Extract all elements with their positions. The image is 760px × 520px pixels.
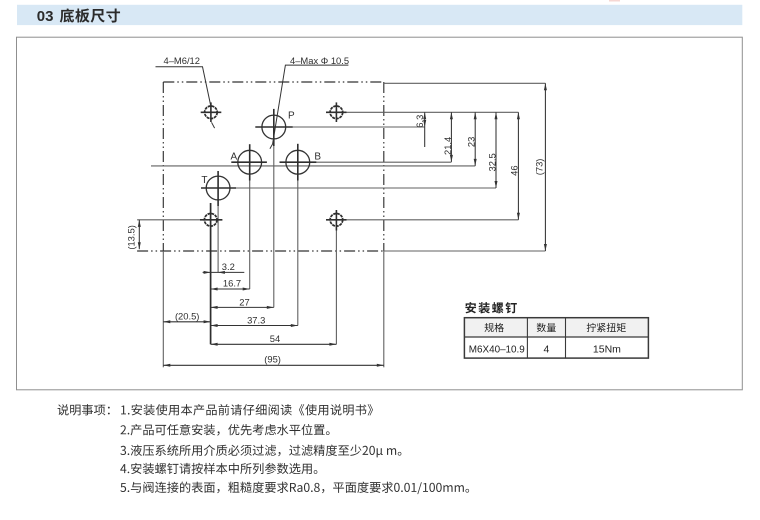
svg-text:37.3: 37.3 [247,314,265,325]
svg-text:(20.5): (20.5) [175,310,200,321]
svg-text:54: 54 [270,333,280,344]
svg-text:4–M6/12: 4–M6/12 [164,55,200,66]
svg-text:(13.5): (13.5) [125,225,136,250]
svg-text:32.5: 32.5 [487,153,498,171]
svg-text:6.3: 6.3 [414,115,425,128]
svg-text:B: B [314,152,321,163]
svg-text:P: P [288,111,295,122]
svg-text:(95): (95) [264,353,281,364]
svg-text:27: 27 [239,296,249,307]
svg-text:T: T [201,175,207,186]
svg-text:46: 46 [509,165,520,175]
svg-text:M6X40–10.9: M6X40–10.9 [469,344,526,355]
svg-text:16.7: 16.7 [223,278,241,289]
svg-text:23: 23 [466,137,477,147]
svg-text:21.4: 21.4 [442,137,453,155]
svg-text:3.2: 3.2 [222,261,235,272]
svg-text:(73): (73) [534,159,545,176]
svg-text:03: 03 [37,8,54,25]
svg-text:A: A [231,152,238,163]
svg-text:4–Max Φ 10.5: 4–Max Φ 10.5 [290,55,349,66]
svg-text:4: 4 [543,343,549,355]
svg-text:15Nm: 15Nm [593,343,621,355]
